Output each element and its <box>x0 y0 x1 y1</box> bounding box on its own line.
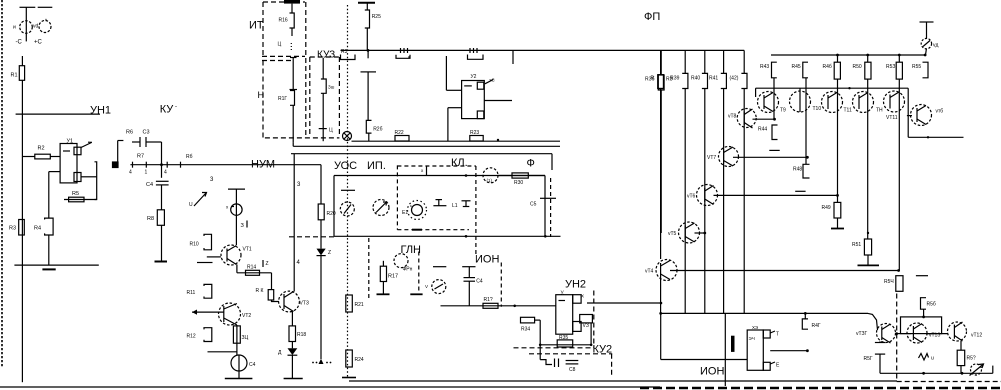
wire <box>322 93 324 128</box>
ground <box>284 378 303 380</box>
inner box bottom <box>334 235 561 237</box>
svg-text:4: 4 <box>129 170 132 176</box>
svg-text:VЗ: VЗ <box>583 323 589 329</box>
resistor R58 <box>957 350 965 365</box>
svg-text:Rб: Rб <box>186 154 193 160</box>
wire <box>291 312 293 326</box>
wire <box>660 277 662 313</box>
svg-text:R41: R41 <box>709 76 718 82</box>
svg-text:УОС: УОС <box>334 160 357 172</box>
inner box left <box>333 176 335 237</box>
resistor R38 <box>658 75 664 89</box>
wire <box>660 89 662 260</box>
wire <box>48 235 50 265</box>
svg-text:У2: У2 <box>471 74 477 80</box>
node <box>465 174 468 177</box>
IC U5 <box>747 330 763 370</box>
box Н right <box>305 2 307 138</box>
wire <box>50 156 60 158</box>
dotted border <box>347 5 349 377</box>
svg-text:R14: R14 <box>247 265 256 271</box>
stub below bus at x=513 <box>512 50 514 64</box>
base plates <box>207 256 221 258</box>
svg-text:VТ7: VТ7 <box>707 155 716 161</box>
svg-text:R11: R11 <box>187 290 196 296</box>
КУЗ interior resistor <box>322 58 324 79</box>
resistor R26v <box>366 120 371 133</box>
svg-text:Z: Z <box>266 261 269 267</box>
svg-text:R45: R45 <box>792 64 801 70</box>
dashed border <box>368 238 370 298</box>
svg-text:У.: У. <box>561 291 565 297</box>
ground <box>342 377 356 379</box>
svg-text:R3: R3 <box>341 49 348 55</box>
node black square <box>113 162 119 168</box>
pin tick <box>166 162 168 168</box>
wire <box>23 156 35 158</box>
ground <box>831 228 844 230</box>
svg-text:4: 4 <box>164 170 167 176</box>
dashed circle arrow <box>971 364 982 375</box>
terminal bar <box>228 188 245 190</box>
wire <box>272 300 280 302</box>
left dotted border <box>1 0 3 368</box>
capacitor C inside <box>436 199 443 201</box>
contact K2 <box>469 48 471 53</box>
svg-text:R18: R18 <box>297 332 306 338</box>
Н interior: current source element <box>290 57 297 59</box>
wire <box>320 165 322 204</box>
dashed border <box>418 252 420 294</box>
transistor VT12 <box>853 92 874 113</box>
ground <box>42 268 55 270</box>
dots <box>312 362 314 364</box>
arrow end <box>319 359 324 364</box>
svg-text:R3: R3 <box>9 226 16 232</box>
wire <box>271 273 273 290</box>
resistor R24 <box>346 350 353 367</box>
zigzag symbol <box>919 354 929 361</box>
svg-text:ИП.: ИП. <box>367 160 386 172</box>
svg-text:vТ6: vТ6 <box>687 194 696 200</box>
resistor R39 <box>682 73 688 88</box>
svg-text:хС: хС <box>489 78 495 83</box>
wire <box>723 50 725 73</box>
svg-text:R8: R8 <box>147 216 154 222</box>
svg-text:C4: C4 <box>146 182 153 188</box>
wire bottom <box>880 372 993 374</box>
wire <box>468 267 470 278</box>
svg-text:vd: vd <box>33 24 39 30</box>
wire bus <box>661 312 868 314</box>
svg-text:U: U <box>189 202 193 208</box>
wire <box>291 342 293 349</box>
wire VT8 collector <box>753 118 775 120</box>
resistor R1 <box>19 66 24 81</box>
svg-text:С5: С5 <box>530 202 537 208</box>
svg-text:ь: ь <box>410 203 412 208</box>
svg-text:УН2: УН2 <box>565 279 586 291</box>
box Н top <box>262 60 293 62</box>
wire output <box>441 305 556 307</box>
svg-text:ФРн: ФРн <box>403 267 413 273</box>
transistor VT14 <box>911 105 932 126</box>
transistor VT9 <box>758 92 779 113</box>
current source circle <box>231 355 247 371</box>
diode VD top right <box>920 21 934 23</box>
svg-text:R5Ч: R5Ч <box>884 279 894 285</box>
resistor R23 on bus2 <box>470 136 483 142</box>
capacitor plate <box>319 128 327 130</box>
transistor VT11 <box>822 92 843 113</box>
diode circle V1 <box>432 280 446 294</box>
wire <box>367 72 369 121</box>
wire УН2 out <box>587 302 661 304</box>
svg-text:R4б: R4б <box>823 64 832 70</box>
coupling box <box>901 317 942 334</box>
plate <box>916 275 928 277</box>
svg-text:vТ12: vТ12 <box>971 333 982 339</box>
svg-text:ЭЧ: ЭЧ <box>749 336 755 341</box>
svg-text:R5б: R5б <box>927 302 936 308</box>
capacitor C4 <box>156 180 169 182</box>
svg-text:R4Г: R4Г <box>812 323 821 329</box>
op-amp U3 <box>556 295 573 335</box>
wire <box>161 185 163 210</box>
wire <box>445 56 447 90</box>
transistor VT8 <box>737 109 756 128</box>
ИТ interior: top terminal <box>284 0 300 4</box>
wire input 2 <box>448 107 462 109</box>
transistor VD1 <box>20 21 33 34</box>
svg-text:R1Г: R1Г <box>278 96 287 102</box>
bottom border dashed thick right <box>640 387 1001 390</box>
svg-text:ЗЦ: ЗЦ <box>242 335 249 341</box>
wire <box>743 50 745 73</box>
svg-text:RЗб: RЗб <box>645 77 655 83</box>
box left edge pin wire <box>293 154 295 292</box>
resistor R14 <box>237 272 272 274</box>
box ИТ bottom <box>262 55 305 57</box>
svg-text:ИОН: ИОН <box>475 254 499 266</box>
svg-text:VТ1: VТ1 <box>243 247 252 253</box>
wire <box>704 89 706 314</box>
svg-text:vТ5: vТ5 <box>668 231 677 237</box>
svg-text:R35: R35 <box>559 335 568 341</box>
transistor VT15 <box>877 324 896 343</box>
svg-text:R7: R7 <box>137 154 144 160</box>
wire <box>322 129 324 142</box>
wire <box>238 371 240 379</box>
svg-text:ТН: ТН <box>876 108 883 114</box>
resistor R13 <box>233 326 240 343</box>
ground bar 2 <box>410 293 422 295</box>
svg-text:R К: R К <box>256 288 264 294</box>
box ИТ top <box>263 1 305 3</box>
IC U2 <box>462 81 485 119</box>
wire <box>236 265 238 273</box>
wire bus <box>771 54 925 56</box>
svg-text:R40: R40 <box>691 76 700 82</box>
node junction <box>160 163 163 166</box>
capacitor C3 <box>132 141 140 143</box>
ground R51 <box>867 255 869 265</box>
dashed border <box>500 263 502 307</box>
capacitor C5 <box>540 197 556 199</box>
svg-text:VТ2: VТ2 <box>242 313 251 319</box>
diode D2 <box>288 348 298 355</box>
ground <box>225 378 253 380</box>
svg-text:L1: L1 <box>452 203 458 209</box>
svg-text:R55: R55 <box>912 64 921 70</box>
transistor VD2 <box>39 21 51 33</box>
wire bottom <box>14 264 98 266</box>
capacitor C6 <box>464 277 476 279</box>
wire <box>21 80 23 265</box>
svg-text:vтб: vтб <box>936 109 944 115</box>
svg-text:RЗ: RЗ <box>666 77 673 83</box>
svg-text:R23: R23 <box>470 130 479 136</box>
resistor R41 <box>721 73 727 88</box>
resistor R54 <box>896 276 903 292</box>
resistor R56 <box>921 298 927 310</box>
resistor R35 <box>557 340 573 347</box>
wire <box>544 176 546 237</box>
svg-text:(42): (42) <box>730 76 739 82</box>
transistor VT4 <box>656 260 677 281</box>
svg-text:u: u <box>931 356 934 362</box>
svg-text:V: V <box>425 284 428 289</box>
wire <box>20 6 36 8</box>
wire <box>291 4 293 13</box>
wire bus3 <box>293 145 560 147</box>
node <box>590 344 593 347</box>
wire <box>704 50 706 73</box>
pin T <box>770 331 775 333</box>
wire <box>684 50 686 73</box>
plate <box>433 266 446 268</box>
wire <box>724 313 726 386</box>
svg-text:VТЗ: VТЗ <box>300 301 309 307</box>
diode D3 <box>317 249 326 256</box>
resistor R16 <box>290 13 295 28</box>
svg-text:R48: R48 <box>793 167 802 173</box>
wire <box>928 333 949 335</box>
node <box>497 139 499 141</box>
svg-text:R1: R1 <box>11 73 18 79</box>
resistor R8 <box>157 210 164 226</box>
trimmer arrow U <box>194 193 206 206</box>
svg-text:R17: R17 <box>388 274 398 280</box>
box КУЗ right <box>338 57 340 137</box>
inner box top <box>334 175 545 177</box>
svg-text:R34: R34 <box>521 327 530 333</box>
capacitor plate <box>341 189 355 191</box>
resistor R17h <box>290 91 295 106</box>
resistor R25 <box>365 10 370 28</box>
wire bus2 <box>352 140 561 142</box>
resistor R19 <box>318 204 324 220</box>
wire <box>660 50 662 74</box>
wire <box>208 351 237 353</box>
svg-text:С8: С8 <box>569 367 576 373</box>
pin mark <box>262 260 264 267</box>
resistor R5 <box>64 199 97 201</box>
resistor R36 <box>658 75 664 90</box>
transistor VT3 <box>279 291 300 312</box>
transistor VT1 <box>221 245 241 265</box>
resistor R48 <box>805 157 807 164</box>
svg-text:R5Г: R5Г <box>864 356 873 362</box>
wire НУМ input line <box>130 164 321 166</box>
wire <box>743 89 745 314</box>
resistor R40 <box>702 73 708 88</box>
wire <box>879 354 881 373</box>
pin tick <box>145 162 147 168</box>
wire <box>895 333 911 335</box>
svg-text:Т: Т <box>776 332 779 338</box>
wire <box>49 171 60 173</box>
node <box>539 344 542 347</box>
wire <box>38 6 53 8</box>
ground <box>155 261 168 263</box>
svg-text:+C: +C <box>34 40 43 46</box>
svg-text:R44: R44 <box>758 127 767 133</box>
svg-text:vд: vд <box>933 43 939 49</box>
svg-text:R5?: R5? <box>967 356 976 362</box>
resistor R22 on bus2 <box>395 136 409 142</box>
transistor VT16 <box>907 323 927 343</box>
bar above VT6 line <box>795 190 805 192</box>
wire to ИОН box <box>660 313 662 359</box>
svg-text:R5З: R5З <box>886 64 895 70</box>
instrument circle <box>340 202 354 216</box>
node <box>465 235 468 238</box>
svg-text:Т10: Т10 <box>813 106 822 112</box>
Ф filter: resistor R30 <box>498 175 545 177</box>
svg-text:vТ8: vТ8 <box>728 114 737 120</box>
svg-text:КУ: КУ <box>160 104 175 116</box>
wire bend into VT15 <box>868 313 878 330</box>
box КУЗ top <box>310 56 340 58</box>
wire <box>837 195 839 202</box>
wire <box>235 189 237 245</box>
wire <box>48 172 50 219</box>
wire <box>291 355 293 378</box>
box Н left <box>262 61 264 138</box>
resistor R10 <box>204 234 212 250</box>
bar above VT7 line <box>769 149 779 151</box>
node bracket <box>95 162 97 200</box>
wire <box>540 344 591 346</box>
svg-text:У1: У1 <box>67 138 74 144</box>
wire <box>368 133 370 141</box>
wire right column <box>907 88 909 137</box>
svg-text:R2: R2 <box>38 146 45 152</box>
wire <box>590 323 592 345</box>
capacitor C7 <box>540 360 552 365</box>
svg-text:Н: Н <box>258 90 265 100</box>
svg-text:и: и <box>13 25 16 31</box>
svg-text:R49: R49 <box>822 205 831 211</box>
resistor R4 <box>45 218 54 235</box>
resistor R49 <box>834 202 841 218</box>
svg-text:R2б: R2б <box>373 127 382 133</box>
svg-text:R1?: R1? <box>484 297 493 303</box>
wire <box>723 89 725 314</box>
svg-text:C3: C3 <box>143 130 150 136</box>
pin E <box>770 362 775 364</box>
svg-text:vТЗГ: vТЗГ <box>856 331 868 337</box>
svg-text:Ц: Ц <box>329 128 333 134</box>
thick mark <box>731 336 735 352</box>
svg-text:*: * <box>45 19 47 25</box>
wire <box>161 225 163 261</box>
node junction <box>367 49 370 52</box>
svg-text:R10: R10 <box>190 242 199 248</box>
svg-text:НУМ: НУМ <box>251 159 275 171</box>
svg-text:Z: Z <box>328 250 331 256</box>
wire bus <box>16 113 100 115</box>
wire VT5 collector <box>695 232 705 234</box>
pin mark x1 <box>426 167 428 176</box>
resistor R11 <box>204 284 212 298</box>
dashed wire down <box>896 294 898 382</box>
resistor R17 <box>382 261 384 266</box>
wire <box>468 281 470 306</box>
box Н bottom <box>265 137 340 139</box>
dashed box bottom <box>897 381 1001 383</box>
transistor VT2 <box>219 303 241 325</box>
resistor R21 <box>346 295 353 312</box>
wire <box>25 7 27 41</box>
svg-text:R16: R16 <box>279 18 288 24</box>
svg-text:Ц: Ц <box>278 42 282 48</box>
plate <box>462 266 475 268</box>
svg-text:Х: Х <box>581 294 584 299</box>
tick below E1 <box>412 229 422 231</box>
svg-text:Т11: Т11 <box>844 108 852 114</box>
transistor VT7 <box>719 147 739 167</box>
wire <box>21 56 23 66</box>
svg-text:С4: С4 <box>476 279 483 285</box>
svg-text:R21: R21 <box>355 302 364 308</box>
box ИТ left <box>262 2 264 56</box>
dashed right <box>550 178 552 237</box>
wire <box>660 90 662 233</box>
pin tick <box>180 162 182 168</box>
wire <box>660 50 662 75</box>
svg-text:VТ11: VТ11 <box>886 115 898 121</box>
transistor VT10 <box>790 91 811 112</box>
svg-text:R12: R12 <box>187 334 196 340</box>
transistor VT13 <box>884 91 905 112</box>
svg-text:1: 1 <box>145 170 148 176</box>
svg-text:ИОН: ИОН <box>700 366 724 378</box>
svg-text:R30: R30 <box>514 180 523 186</box>
wire output <box>770 350 807 352</box>
resistor R2 <box>35 154 51 159</box>
svg-text:Ф: Ф <box>527 158 535 170</box>
dashed border КУ2 <box>514 291 613 377</box>
wire VT7 collector <box>733 156 807 158</box>
resistor R47 <box>804 313 806 319</box>
transistor VT6 <box>697 185 718 206</box>
terminal bar <box>358 2 375 4</box>
svg-text:vТ4: vТ4 <box>645 269 654 275</box>
svg-text:-: - <box>175 104 177 110</box>
wire row bus <box>756 87 909 89</box>
